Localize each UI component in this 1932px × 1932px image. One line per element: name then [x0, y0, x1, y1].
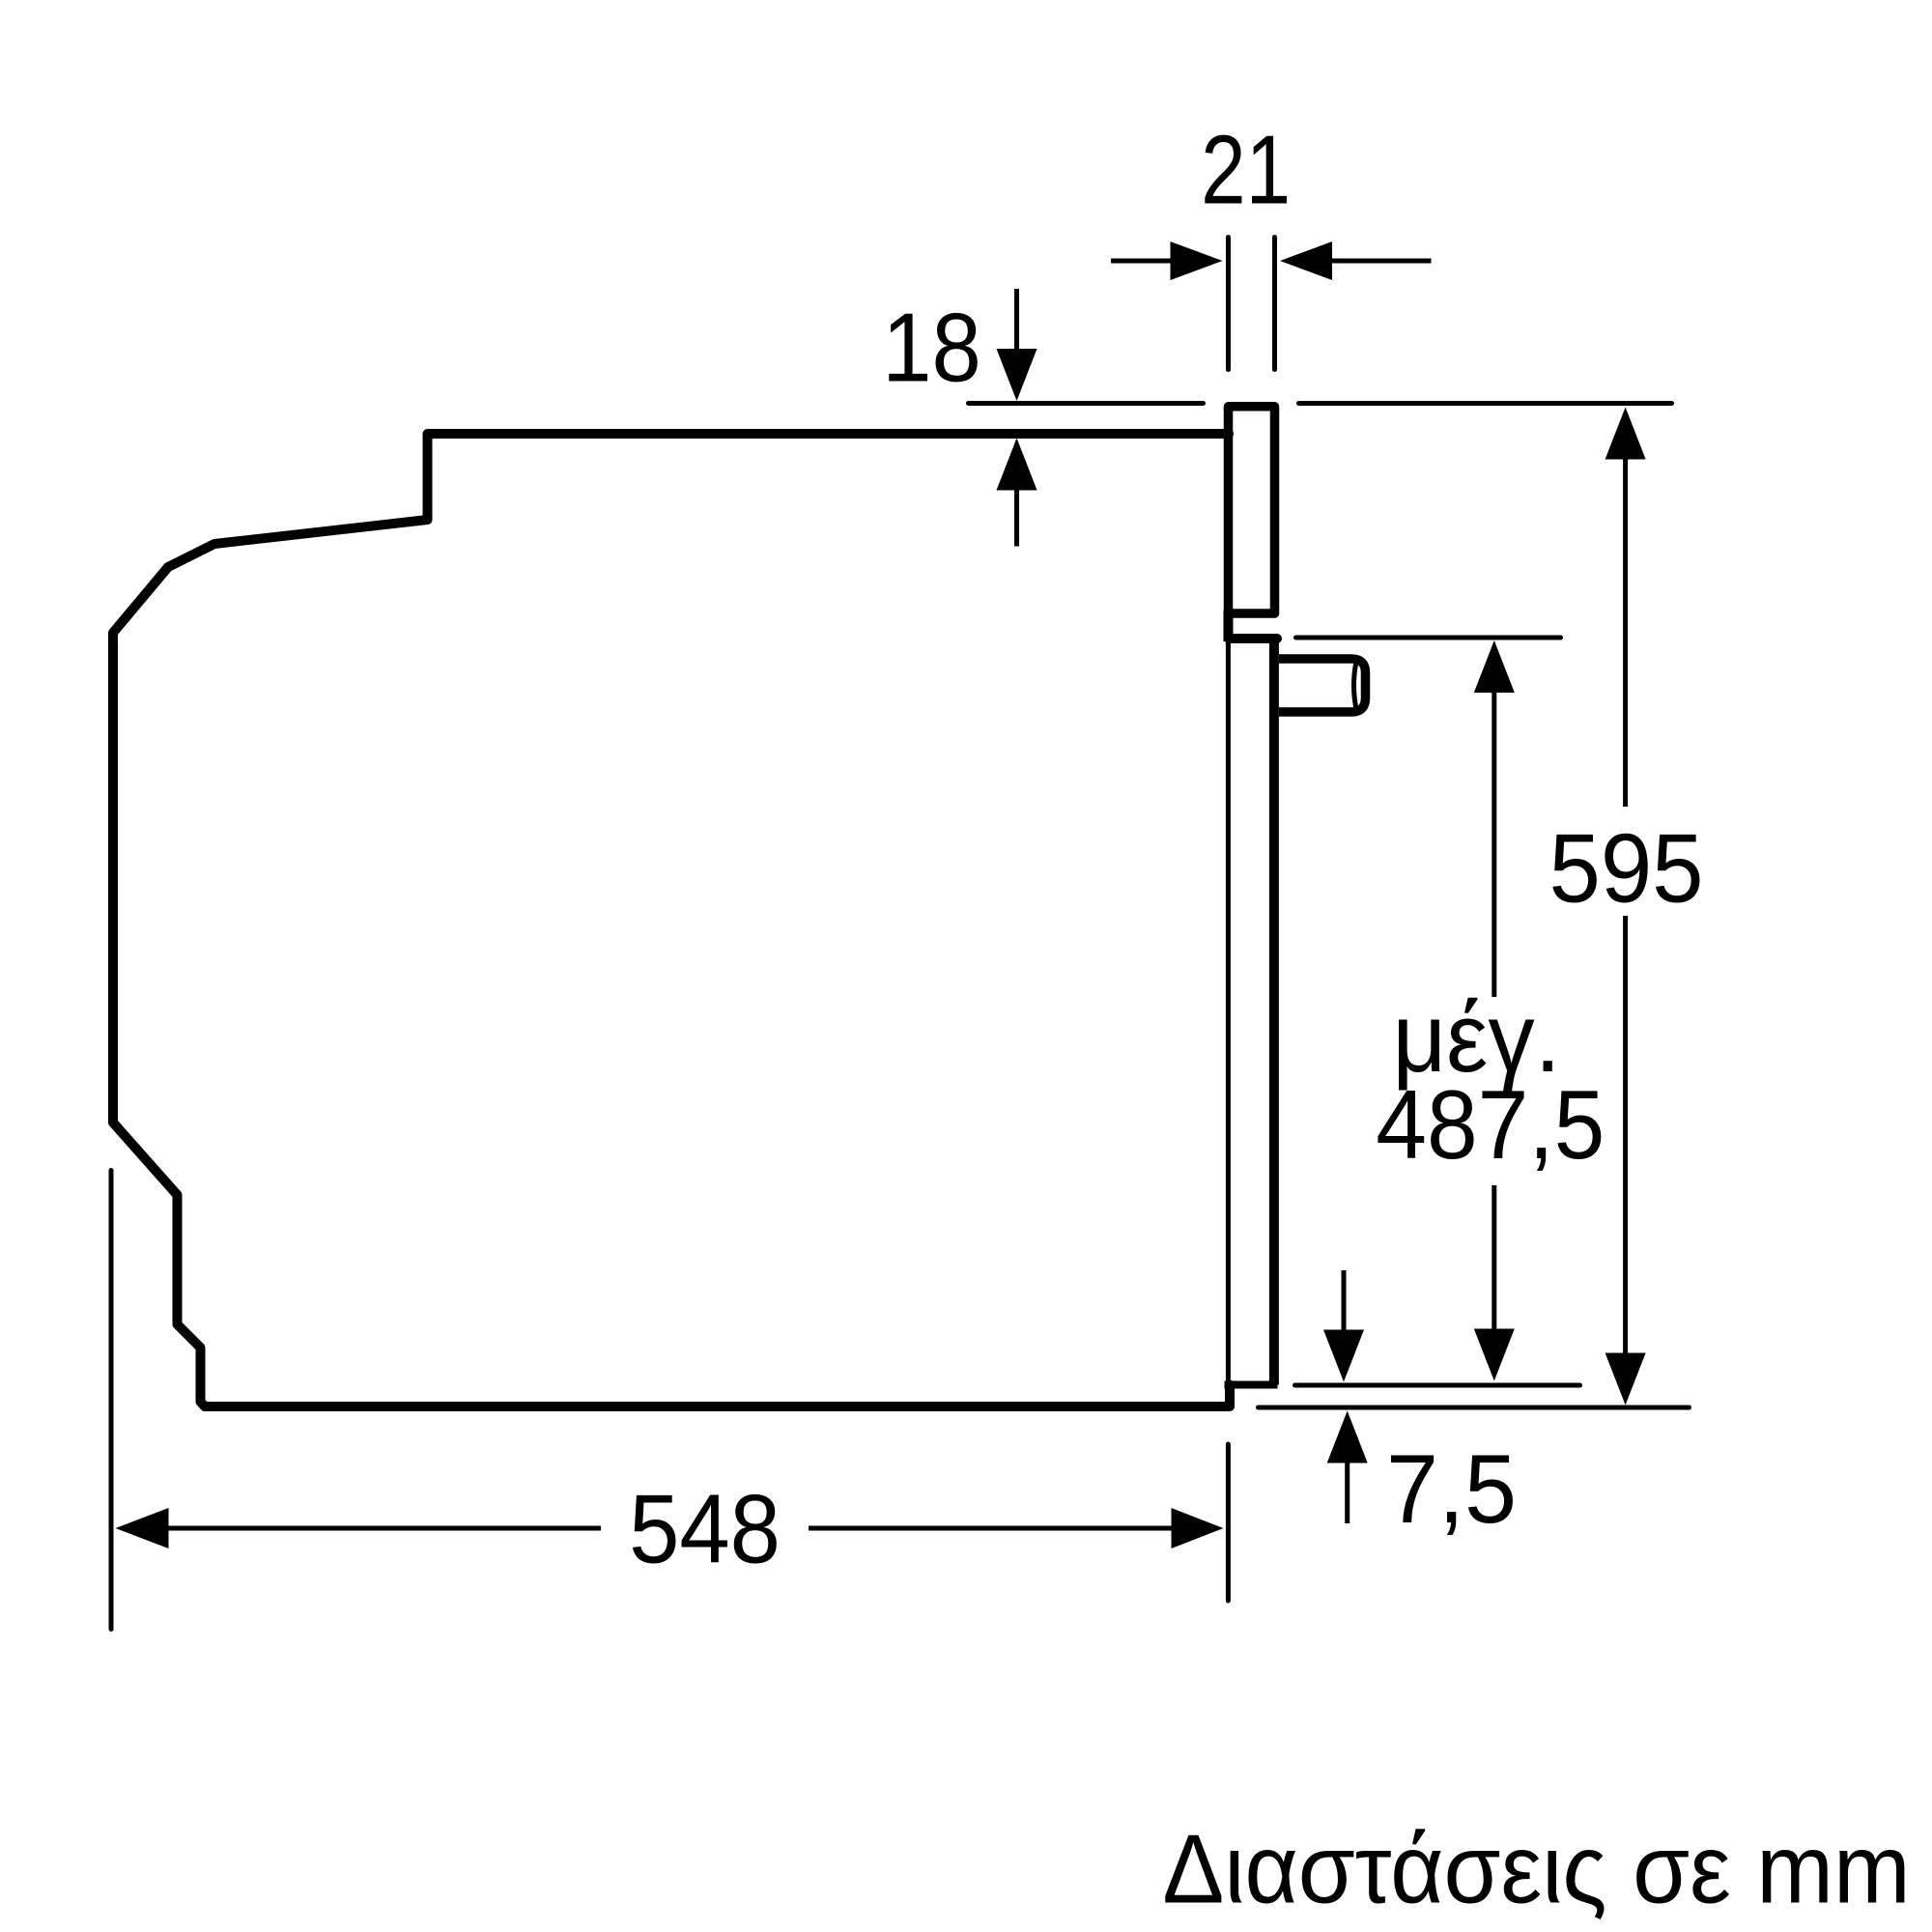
- door front face line: [1226, 639, 1231, 1385]
- svg-text:21: 21: [1201, 115, 1291, 224]
- extension line below door: [1226, 1444, 1231, 1601]
- frame-to-door left joint: [1224, 611, 1234, 641]
- extension line door bottom: [1295, 1383, 1580, 1388]
- extension line bottom left: [109, 1171, 114, 1630]
- dim 487.5 line: [1474, 640, 1515, 693]
- 21 extension line right: [1272, 238, 1277, 370]
- control knob: [1279, 659, 1366, 712]
- door bottom edge: [1225, 1381, 1278, 1389]
- front control-panel frame: [1229, 407, 1275, 613]
- dim 18 up arrow: [997, 439, 1037, 491]
- dim 548 label: [629, 1474, 781, 1583]
- oven body outline: [113, 434, 1230, 1406]
- extension line right of frame (595 top): [1299, 401, 1672, 406]
- knob inner arc: [1354, 665, 1356, 707]
- dim 18 down arrow: [1014, 289, 1019, 353]
- dim 7.5 down arrow: [1342, 1270, 1347, 1332]
- dim 548 line: [116, 1508, 169, 1548]
- dim 595 line: [1605, 408, 1646, 460]
- dim 595 label: [1548, 813, 1703, 923]
- dim 18 label: [882, 294, 981, 403]
- caption dimensions in mm: [1162, 1814, 1910, 1923]
- dim 487.5 label line 2: [1376, 1069, 1605, 1179]
- 21 extension line left: [1226, 238, 1231, 370]
- svg-text:487,5: 487,5: [1376, 1069, 1605, 1179]
- door back line: [1269, 639, 1279, 1385]
- svg-text:595: 595: [1548, 813, 1703, 923]
- dim 7.5 label: [1386, 1434, 1517, 1543]
- svg-text:18: 18: [882, 294, 981, 403]
- dim 21 left arrow: [1111, 259, 1173, 264]
- svg-text:7,5: 7,5: [1386, 1434, 1517, 1543]
- dim 21 label: [1201, 115, 1291, 224]
- door top edge: [1229, 634, 1277, 643]
- extension line left of frame (18 ref): [969, 401, 1204, 406]
- extension line 487.5 top: [1296, 636, 1561, 640]
- extension line cabinet bottom: [1259, 1406, 1690, 1410]
- dim 7.5 up arrow: [1327, 1411, 1368, 1463]
- svg-text:548: 548: [629, 1474, 781, 1583]
- svg-text:Διαστάσεις σε mm: Διαστάσεις σε mm: [1162, 1814, 1910, 1923]
- dim 487.5 label line 1: [1392, 982, 1560, 1092]
- dim 21 right arrow: [1280, 241, 1332, 280]
